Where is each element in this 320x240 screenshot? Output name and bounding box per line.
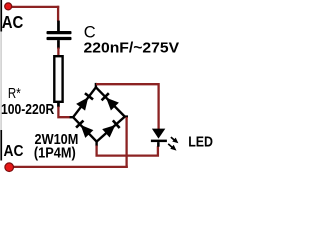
- diode D3 (bottom to left): [75, 119, 94, 138]
- bridge top stub (DC+): [95, 83, 97, 88]
- LED D5 cathode bar: [151, 140, 167, 143]
- wire AC1 drop to capacitor: [57, 6, 59, 21]
- wire resistor to bridge left vertex: [58, 107, 70, 118]
- svg-text:(1P4M): (1P4M): [34, 145, 76, 162]
- bridge bottom stub (DC-): [95, 141, 97, 146]
- left page border bottom segment: [0, 130, 2, 161]
- left page border top segment: [0, 0, 2, 32]
- diode D2 (right to top): [100, 92, 119, 111]
- capacitor C1 plate 1: [47, 31, 72, 34]
- LED D5 bottom stub: [157, 142, 160, 147]
- diode D4 (bottom to right): [102, 119, 121, 137]
- node AC1 terminal dot: [5, 3, 12, 10]
- bridge edge bottom-left: [73, 117, 97, 141]
- capacitor C1 top lead: [57, 21, 60, 32]
- diode D1 (left to top): [76, 92, 94, 111]
- wire DC- bottom vertex to LED cathode: [97, 146, 158, 156]
- wire DC+ top vertex to LED anode: [96, 84, 159, 129]
- bridge edge left-top: [73, 87, 96, 117]
- wire AC1 top horizontal: [8, 6, 59, 8]
- bridge edge right-bottom: [97, 117, 125, 142]
- svg-text:LED: LED: [188, 134, 213, 151]
- bridge right stub (AC): [124, 115, 128, 117]
- resistor R bottom black tip: [57, 103, 60, 107]
- wire capacitor to resistor: [57, 48, 59, 56]
- left page border (faint middle): [0, 28, 1, 132]
- wire AC2 horizontal from terminal: [9, 166, 128, 168]
- svg-text:AC: AC: [2, 12, 24, 32]
- svg-text:220nF/~275V: 220nF/~275V: [84, 40, 180, 57]
- node AC2 terminal dot: [5, 163, 14, 172]
- wire AC2 riser to bridge right vertex: [125, 117, 127, 168]
- bridge edge top-right: [96, 87, 125, 116]
- svg-text:100-220R: 100-220R: [1, 102, 55, 118]
- capacitor C1 bottom lead: [57, 40, 60, 49]
- capacitor C1 plate 2: [47, 37, 72, 40]
- svg-text:R*: R*: [8, 86, 21, 102]
- LED emission arrow 1: [171, 137, 179, 143]
- bridge left stub: [70, 116, 74, 118]
- svg-text:AC: AC: [4, 143, 24, 160]
- resistor R body: [54, 56, 62, 102]
- LED emission arrow 2: [168, 144, 176, 151]
- LED D5 triangle: [152, 129, 165, 139]
